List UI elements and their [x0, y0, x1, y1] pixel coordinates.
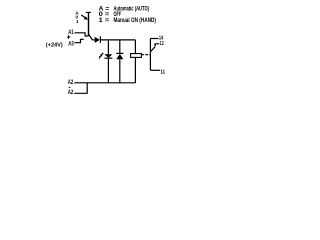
- LED emission arrow 2: [99, 55, 102, 57]
- LED branch wire top: [107, 40, 109, 54]
- contact lever to 12: [151, 47, 156, 52]
- diode V3 branch wire bottom: [119, 59, 121, 83]
- svg-text:A2: A2: [68, 90, 74, 96]
- svg-text:A3: A3: [68, 41, 74, 47]
- top bus wire: [100, 39, 135, 41]
- svg-text:Manual ON (HAND): Manual ON (HAND): [114, 18, 157, 24]
- svg-text:12: 12: [160, 41, 164, 47]
- polarity minus: [69, 86, 71, 88]
- svg-text:A2: A2: [68, 80, 74, 86]
- svg-text:1: 1: [76, 19, 79, 24]
- LED emission arrow 1: [101, 53, 104, 55]
- diode V1 triangle: [95, 37, 100, 43]
- relay coil K1 body: [131, 54, 142, 58]
- contact common vertical: [149, 39, 151, 71]
- terminal 12 lead: [155, 44, 159, 47]
- terminal 14 lead: [150, 38, 158, 40]
- LED V2 triangle: [104, 54, 112, 58]
- switch S1 T-handle: [86, 11, 91, 13]
- A2 jumper step wire: [74, 83, 87, 94]
- relay coil K1 branch wire bottom: [134, 57, 136, 83]
- diode V3 cathode bar: [116, 52, 123, 54]
- diode V1 cathode bar: [99, 36, 101, 43]
- diode V3 triangle: [116, 54, 123, 59]
- switch S1 lever: [88, 34, 92, 40]
- LED branch wire bottom: [107, 58, 109, 83]
- svg-text:A1: A1: [68, 30, 74, 36]
- wire switch to diode: [92, 39, 94, 41]
- LED arrow head 1: [100, 55, 102, 57]
- LED V2 cathode bar: [104, 57, 112, 59]
- switch arrow head: [84, 16, 88, 20]
- mechanical link dashes: [141, 54, 150, 56]
- switch S1 position arrow: [81, 15, 86, 19]
- polarity plus: [67, 35, 70, 38]
- relay coil K1 branch wire top: [134, 40, 136, 54]
- svg-text:(+24V): (+24V): [46, 42, 63, 48]
- svg-text:1 =: 1 =: [99, 18, 110, 24]
- wire A1 to switch: [75, 33, 89, 36]
- switch S1 shaft: [88, 12, 90, 36]
- wire A3 stub: [75, 39, 84, 42]
- diode V3 branch wire top: [119, 40, 121, 54]
- terminal 11 lead: [150, 69, 160, 71]
- LED arrow head 2: [99, 57, 101, 59]
- svg-text:11: 11: [161, 70, 166, 76]
- bottom bus wire: [74, 82, 135, 84]
